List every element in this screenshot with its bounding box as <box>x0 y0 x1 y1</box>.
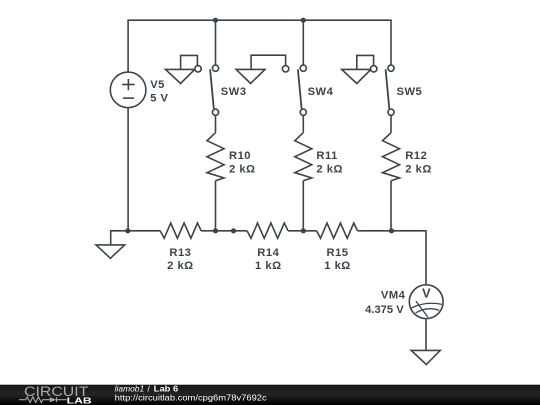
svg-text:2 kΩ: 2 kΩ <box>229 164 256 176</box>
svg-text:R14: R14 <box>257 247 279 259</box>
svg-text:R15: R15 <box>326 247 348 259</box>
svg-text:4.375 V: 4.375 V <box>365 304 404 316</box>
svg-text:SW5: SW5 <box>397 86 423 98</box>
svg-text:5 V: 5 V <box>150 92 168 104</box>
svg-text:SW4: SW4 <box>308 86 334 98</box>
svg-text:V5: V5 <box>150 79 165 91</box>
svg-text:R13: R13 <box>169 247 191 259</box>
svg-text:SW3: SW3 <box>221 86 247 98</box>
svg-text:R10: R10 <box>229 150 251 162</box>
svg-text:2 kΩ: 2 kΩ <box>167 260 194 272</box>
svg-text:2 kΩ: 2 kΩ <box>316 164 343 176</box>
svg-text:R12: R12 <box>405 150 427 162</box>
svg-text:V: V <box>422 286 431 301</box>
svg-text:1 kΩ: 1 kΩ <box>324 260 351 272</box>
svg-text:LAB: LAB <box>67 395 92 405</box>
svg-text:http://circuitlab.com/cpg6m78v: http://circuitlab.com/cpg6m78v7692c <box>115 393 267 403</box>
svg-text:2 kΩ: 2 kΩ <box>405 164 432 176</box>
svg-text:1 kΩ: 1 kΩ <box>255 260 282 272</box>
svg-text:VM4: VM4 <box>381 290 406 302</box>
svg-text:R11: R11 <box>316 150 337 162</box>
